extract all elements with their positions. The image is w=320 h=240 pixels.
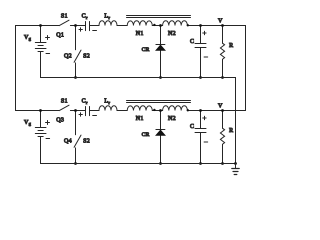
svg-text:C: C [190,124,194,130]
svg-text:S2: S2 [83,53,90,59]
svg-text:N1: N1 [136,116,144,122]
svg-text:Q1: Q1 [56,33,64,39]
svg-text:N2: N2 [168,31,176,37]
svg-text:C: C [190,39,194,45]
svg-text:V: V [218,104,223,110]
svg-text:Cr: Cr [82,14,88,20]
svg-text:Q3: Q3 [56,118,64,124]
svg-text:CR: CR [142,132,150,138]
svg-text:R: R [229,128,233,134]
svg-text:S1: S1 [61,13,68,19]
svg-text:N2: N2 [168,116,176,122]
svg-text:Lr: Lr [104,14,110,20]
svg-text:N1: N1 [136,31,144,37]
svg-text:Vg: Vg [24,120,32,126]
svg-text:Cr: Cr [82,99,88,105]
svg-text:CR: CR [142,47,150,53]
svg-text:Q4: Q4 [64,138,72,144]
svg-text:Lr: Lr [104,99,110,105]
svg-text:R: R [229,43,233,49]
svg-text:S2: S2 [83,138,90,144]
svg-text:V: V [218,19,223,25]
svg-text:Vg: Vg [24,35,32,41]
svg-text:Q2: Q2 [64,53,72,59]
svg-text:S1: S1 [61,98,68,104]
